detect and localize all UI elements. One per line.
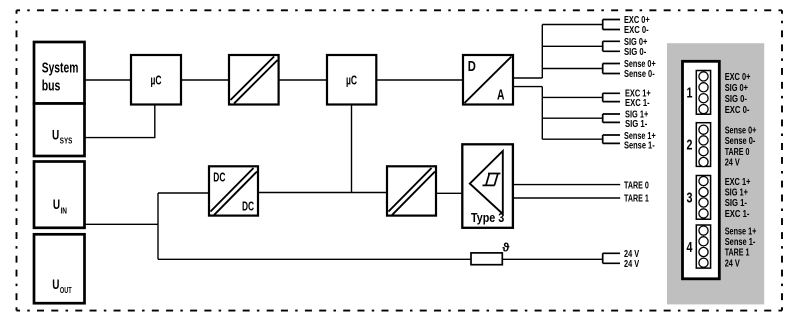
svg-text:EXC 1-: EXC 1-: [625, 98, 650, 109]
svg-text:Sense 0+: Sense 0+: [725, 125, 757, 136]
wire UIN to junction: [85, 223, 159, 225]
connector group 3: [687, 176, 711, 220]
bus channel 1: [542, 87, 602, 140]
svg-text:TARE 0: TARE 0: [624, 180, 649, 191]
terminal area background panel: [667, 43, 764, 304]
svg-text:SIG 1-: SIG 1-: [625, 119, 647, 130]
connector group 4 labels: [725, 226, 757, 269]
svg-text:U: U: [52, 277, 59, 292]
svg-text:SIG 1+: SIG 1+: [725, 188, 748, 199]
svg-text:µC: µC: [151, 74, 162, 88]
comparator Type 3: [462, 144, 513, 228]
svg-text:SIG 1-: SIG 1-: [725, 198, 747, 209]
svg-text:3: 3: [687, 190, 693, 206]
svg-text:DC: DC: [213, 171, 225, 185]
D/A converter: [463, 55, 513, 105]
terminal pair Sense 1: [603, 135, 620, 143]
terminal pair EXC 0: [603, 20, 620, 30]
svg-text:24 V: 24 V: [725, 258, 740, 269]
wire junction to DC/DC: [158, 192, 209, 194]
svg-text:System: System: [42, 61, 79, 77]
svg-text:24 V: 24 V: [725, 158, 740, 169]
terminal pair SIG 0: [603, 41, 620, 51]
wire USYS to uC1 bottom: [85, 105, 155, 138]
bus channel 0: [542, 25, 602, 79]
terminal pair Sense 0: [603, 64, 620, 74]
svg-text:U: U: [52, 127, 59, 142]
block UOUT: [34, 234, 85, 303]
wire bottom 24V rail: [158, 258, 603, 260]
svg-text:SYS: SYS: [60, 136, 73, 145]
terminal pair 24V: [603, 253, 620, 263]
svg-text:µC: µC: [346, 74, 357, 88]
svg-text:bus: bus: [42, 79, 61, 95]
svg-text:EXC 1+: EXC 1+: [725, 177, 751, 188]
wire System bus to uC1: [85, 79, 132, 81]
wire uC2 bottom stub: [351, 105, 353, 193]
svg-text:TARE 1: TARE 1: [725, 248, 750, 259]
microcontroller uC 1: [131, 55, 181, 105]
svg-text:EXC 0-: EXC 0-: [624, 25, 649, 36]
svg-text:D: D: [468, 58, 476, 75]
svg-text:TARE 1: TARE 1: [624, 193, 649, 204]
wire TARE 0: [513, 184, 620, 186]
svg-text:Sense 1-: Sense 1-: [624, 141, 655, 152]
svg-text:A: A: [497, 86, 505, 103]
svg-text:Sense 0-: Sense 0-: [725, 136, 756, 147]
terminal pair EXC 1: [603, 93, 620, 101]
svg-text:SIG 0-: SIG 0-: [725, 94, 747, 105]
svg-text:SIG 0+: SIG 0+: [725, 83, 748, 94]
D/A output stub channel 0: [513, 77, 542, 79]
block USYS: [34, 104, 85, 157]
svg-text:Sense 1-: Sense 1-: [725, 237, 756, 248]
thermal fuse: [471, 240, 510, 264]
block System bus: [34, 42, 85, 104]
isolation barrier 1: [229, 55, 279, 105]
connector group 1 labels: [725, 72, 751, 116]
wire uC2 to D/A: [376, 79, 463, 81]
D/A output stub channel 1: [513, 86, 542, 88]
svg-text:24 V: 24 V: [624, 259, 639, 270]
wire DC/DC to isolation 2: [258, 192, 387, 194]
connector group 2 labels: [725, 125, 757, 168]
connector group 1: [687, 71, 711, 115]
connector body: [683, 61, 720, 278]
isolation barrier 2: [387, 166, 436, 215]
svg-text:EXC 0+: EXC 0+: [725, 72, 751, 83]
svg-text:TARE 0: TARE 0: [725, 147, 750, 158]
svg-text:U: U: [53, 197, 60, 212]
svg-text:Type 3: Type 3: [471, 210, 504, 225]
svg-text:1: 1: [687, 85, 693, 101]
connector group 2: [687, 123, 711, 167]
svg-text:ϑ: ϑ: [502, 240, 510, 254]
svg-text:SIG 0-: SIG 0-: [624, 47, 646, 58]
DC/DC converter: [209, 166, 258, 215]
svg-text:DC: DC: [242, 200, 254, 214]
svg-text:Sense 1+: Sense 1+: [725, 226, 757, 237]
wire isolation 1 to uC2: [279, 79, 327, 81]
wire uC1 to isolation 1: [181, 79, 229, 81]
microcontroller uC 2: [327, 55, 376, 105]
wire isolation 2 to Type 3: [436, 192, 462, 194]
connector group 3 labels: [725, 177, 751, 220]
svg-text:2: 2: [687, 137, 693, 153]
terminal pair SIG 1: [603, 114, 620, 122]
block UIN: [34, 162, 85, 228]
connector group 4: [687, 225, 711, 268]
svg-text:EXC 0-: EXC 0-: [725, 105, 750, 116]
svg-text:EXC 1-: EXC 1-: [725, 209, 750, 220]
svg-text:Sense 0-: Sense 0-: [624, 69, 655, 80]
svg-text:IN: IN: [61, 207, 68, 216]
wire TARE 1: [513, 197, 620, 199]
wire junction vertical: [157, 193, 159, 259]
svg-text:4: 4: [687, 239, 693, 255]
svg-text:OUT: OUT: [60, 286, 72, 295]
